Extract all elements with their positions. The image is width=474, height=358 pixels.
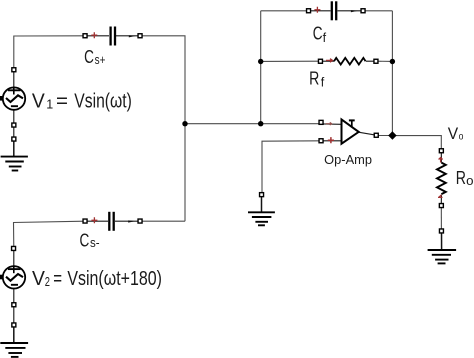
svg-text:=: =	[53, 267, 62, 290]
svg-text:f: f	[321, 75, 325, 89]
svg-text:R: R	[456, 167, 466, 188]
svg-text:Vsin(ωt+180): Vsin(ωt+180)	[67, 267, 161, 290]
svg-text:o: o	[466, 174, 473, 188]
svg-text:2: 2	[45, 275, 50, 289]
svg-text:Vsin(ωt): Vsin(ωt)	[74, 89, 132, 112]
svg-text:V: V	[32, 267, 45, 290]
svg-text:1: 1	[46, 98, 53, 112]
svg-text:C: C	[313, 23, 323, 44]
svg-text:o: o	[459, 130, 464, 142]
svg-text:V: V	[448, 124, 459, 143]
svg-text:C: C	[84, 46, 94, 67]
svg-text:R: R	[309, 67, 319, 88]
svg-text:V: V	[32, 89, 45, 112]
svg-text:f: f	[323, 31, 327, 45]
svg-text:=: =	[56, 89, 68, 112]
svg-text:s+: s+	[95, 52, 106, 67]
svg-text:Op-Amp: Op-Amp	[324, 152, 372, 167]
svg-text:C: C	[80, 229, 90, 250]
svg-text:s-: s-	[90, 236, 100, 250]
